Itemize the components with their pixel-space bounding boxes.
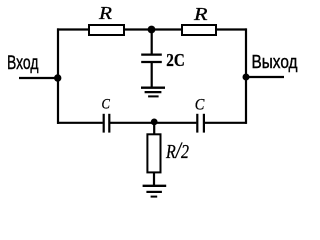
svg-text:Выход: Выход	[252, 51, 298, 72]
svg-text:Вход: Вход	[7, 52, 39, 74]
svg-text:C: C	[102, 96, 111, 112]
svg-text:R: R	[98, 3, 112, 23]
svg-text:R: R	[193, 4, 208, 24]
svg-text:R/2: R/2	[165, 138, 189, 164]
svg-text:2C: 2C	[166, 50, 185, 70]
svg-text:C: C	[195, 96, 205, 113]
